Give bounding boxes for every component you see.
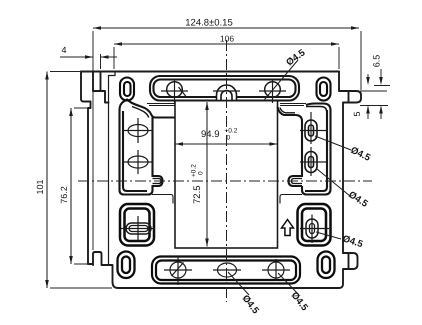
dim 4	[60, 54, 117, 69]
dim 72.5	[205, 102, 209, 247]
top slot inner	[154, 80, 296, 98]
right boss slot hole ticks	[300, 112, 328, 176]
leader dia4.5 bottom1	[228, 272, 249, 295]
right boss C inner line	[280, 108, 295, 113]
top-left slot notch (4mm)	[93, 72, 101, 92]
center dome cross tick	[213, 90, 240, 92]
dim 101	[45, 72, 112, 289]
left square boss	[120, 204, 154, 246]
top slot hole right	[265, 82, 281, 98]
top slot hole left	[161, 79, 286, 104]
dim 6.5	[360, 69, 390, 91]
central rectangle opening	[175, 101, 278, 249]
left shelf under boss to square boss	[152, 195, 173, 204]
top-left micro step	[101, 91, 109, 103]
bottom boss hole left	[164, 256, 290, 285]
bottom tab notch line	[348, 253, 350, 269]
up-arrow symbol	[282, 220, 294, 236]
bottom boss hole center	[218, 263, 237, 277]
left inner thin double shelf	[147, 104, 175, 106]
svg-text:6.5: 6.5	[372, 55, 382, 68]
right boss step to square boss	[280, 195, 302, 204]
bottom-right tab	[335, 253, 358, 288]
svg-text:0: 0	[227, 135, 231, 142]
left square boss hole	[121, 216, 155, 241]
right shelf inner line	[306, 107, 327, 112]
svg-text:72.5: 72.5	[192, 186, 203, 205]
horizontal centerline	[78, 180, 372, 182]
top slot outer	[150, 76, 299, 101]
dim 124.8 line	[93, 26, 361, 250]
right square boss	[298, 204, 331, 246]
corner oval TL	[120, 78, 134, 101]
corner oval TR	[317, 78, 331, 101]
dim 76.2	[69, 108, 92, 264]
dim 5	[360, 106, 388, 120]
left tall boss outer	[120, 100, 176, 195]
left tall boss inner line	[123, 111, 147, 191]
dim 124.8 extension lines	[93, 31, 361, 250]
leader dia4.5 top	[265, 60, 299, 100]
corner oval BL	[118, 252, 135, 279]
leader dia4.5 right2	[317, 169, 350, 196]
left boss S inner line	[132, 107, 149, 118]
right square boss hole	[300, 215, 329, 244]
svg-text:106: 106	[220, 34, 234, 44]
right boss slot hole 1	[305, 120, 317, 173]
svg-text:+0.2: +0.2	[225, 128, 238, 135]
svg-text:101: 101	[35, 179, 45, 194]
svg-text:+0.2: +0.2	[191, 164, 198, 177]
svg-text:4: 4	[61, 45, 66, 55]
corner oval BR	[318, 252, 335, 279]
right inner thin double shelf	[280, 104, 306, 106]
dim 72.5 text	[191, 164, 205, 204]
dim 94.9	[175, 142, 278, 146]
left boss oval hole 1	[123, 118, 153, 174]
svg-text:94.9: 94.9	[201, 129, 220, 140]
leader dia4.5 right1	[315, 136, 351, 150]
leader dia4.5 right3	[316, 232, 341, 239]
left boss oval hole 2	[128, 156, 148, 168]
right boss tab inner	[292, 179, 303, 184]
dim 106 line	[114, 42, 339, 69]
plateau left edge	[109, 72, 116, 266]
bottom long boss	[152, 257, 300, 284]
leader dia4.5 bottom2	[278, 273, 299, 295]
svg-text:76.2: 76.2	[59, 186, 69, 204]
bottom boss hole right	[268, 262, 284, 278]
svg-text:0: 0	[198, 171, 205, 175]
bottom-left step and bump	[88, 252, 335, 288]
right edge upper and top tab	[339, 72, 361, 254]
part outline left ear	[81, 72, 91, 265]
top tab notch line	[348, 91, 350, 103]
right plateau corner and right boss outer	[278, 104, 331, 204]
part outline top edge	[81, 71, 339, 73]
right boss slot hole 2	[305, 152, 317, 173]
vertical centerline	[226, 40, 228, 302]
right boss inner line	[305, 110, 327, 191]
center dome	[217, 85, 237, 101]
svg-text:124.8±0.15: 124.8±0.15	[185, 18, 232, 29]
svg-text:5: 5	[352, 111, 362, 116]
